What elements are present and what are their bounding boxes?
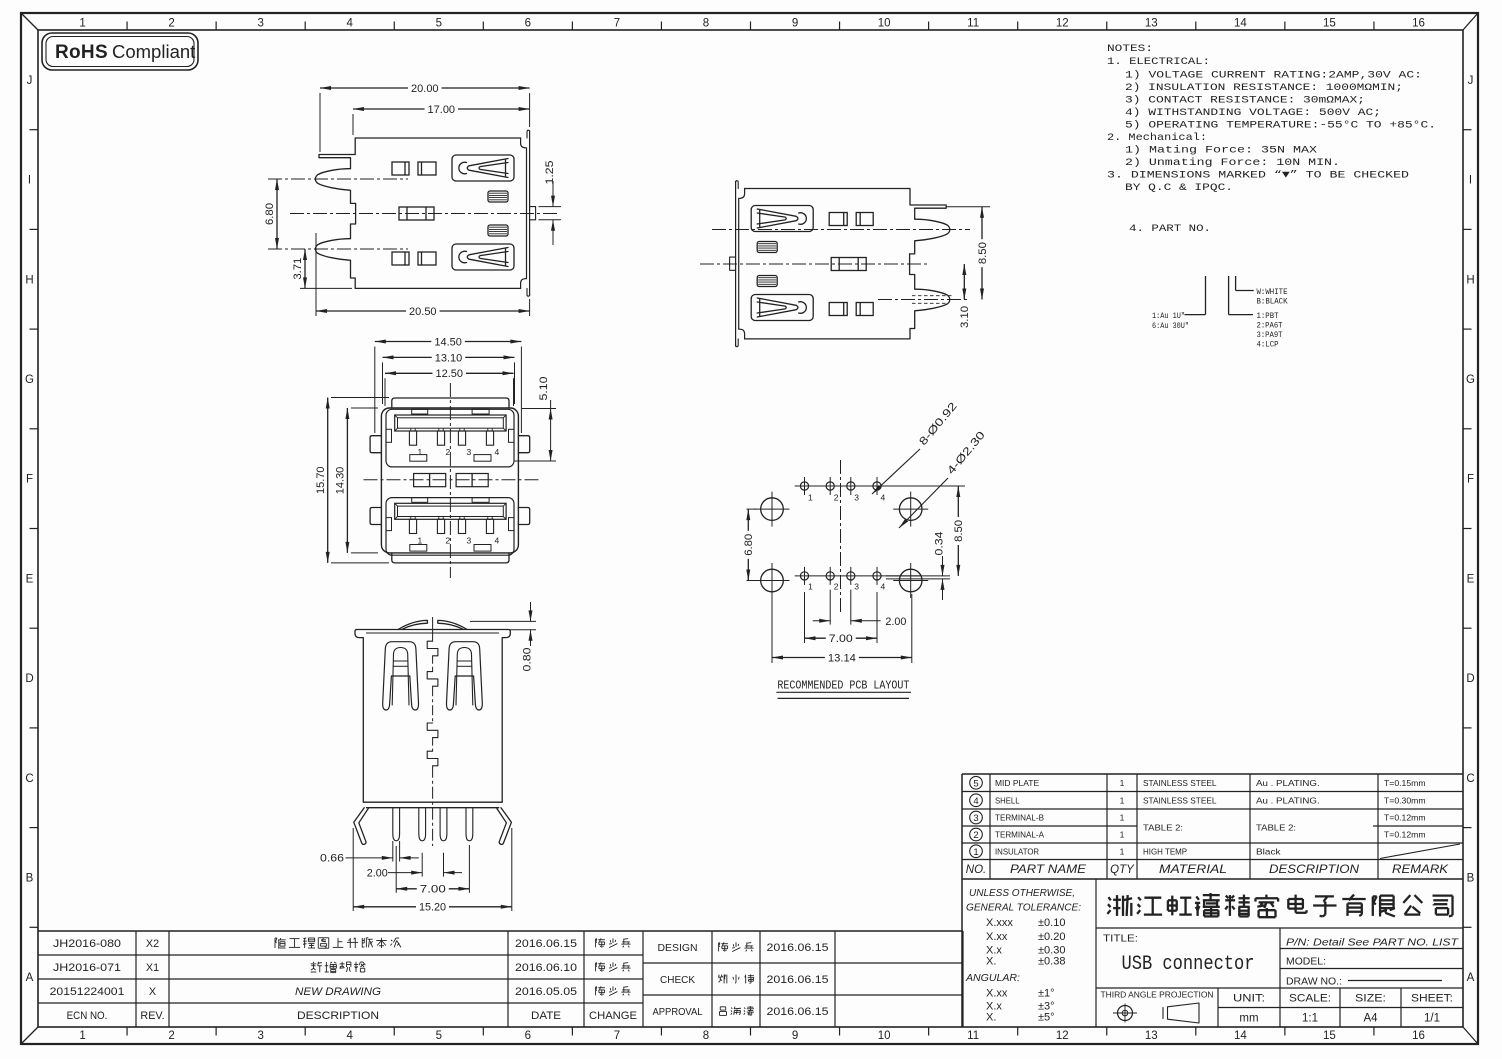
- view 2 center rects: [414, 474, 446, 487]
- pcb dim 13.14: [771, 594, 773, 663]
- svg-text:F: F: [26, 474, 33, 486]
- svg-text:2: 2: [446, 447, 451, 457]
- svg-text:A: A: [26, 972, 34, 984]
- view 2 dim 13.10: [383, 356, 432, 358]
- svg-text:1: 1: [1120, 830, 1125, 840]
- svg-text:13: 13: [1145, 18, 1158, 30]
- svg-text:15: 15: [1323, 1030, 1336, 1042]
- pcb layout large holes: [761, 498, 784, 521]
- svg-text:REMARK: REMARK: [1392, 864, 1450, 876]
- view 2 bottom plate: [392, 553, 509, 563]
- svg-text:C: C: [1466, 773, 1474, 785]
- svg-text:16: 16: [1412, 18, 1425, 30]
- RoHS Compliant badge: [42, 33, 198, 70]
- view 3 top spring arcs: [398, 620, 427, 629]
- svg-text:13.10: 13.10: [435, 352, 463, 364]
- svg-text:3: 3: [467, 447, 472, 457]
- pcb leader 8-0.92: [872, 449, 920, 494]
- svg-text:±0.10: ±0.10: [1038, 917, 1065, 929]
- view 2 dim 15.70: [327, 398, 329, 563]
- svg-text:16: 16: [1412, 1030, 1425, 1042]
- svg-text:STAINLESS STEEL: STAINLESS STEEL: [1143, 778, 1217, 788]
- view 2 port assembly (upper): [386, 409, 514, 467]
- svg-text:8.50: 8.50: [953, 520, 965, 542]
- svg-text:2.00: 2.00: [885, 616, 906, 628]
- svg-text:NEW DRAWING: NEW DRAWING: [295, 986, 381, 998]
- svg-text:2. Mechanical:: 2. Mechanical:: [1107, 132, 1207, 144]
- svg-text:6: 6: [525, 18, 531, 30]
- svg-text:10: 10: [878, 1030, 891, 1042]
- svg-text:15: 15: [1323, 18, 1336, 30]
- svg-text:5: 5: [436, 18, 442, 30]
- svg-text:3. DIMENSIONS MARKED “▼” TO BE: 3. DIMENSIONS MARKED “▼” TO BE CHECKED: [1107, 170, 1409, 182]
- svg-text:THIRD ANGLE PROJECTION: THIRD ANGLE PROJECTION: [1101, 991, 1214, 1000]
- svg-text:20.00: 20.00: [411, 83, 439, 95]
- svg-text:0.80: 0.80: [522, 648, 534, 672]
- view 3 bottom band: [363, 801, 502, 803]
- pcb layout small holes: [795, 485, 892, 487]
- svg-text:6: 6: [525, 1030, 531, 1042]
- view 1 dim 1.25: [539, 206, 562, 208]
- svg-text:1: 1: [1120, 846, 1125, 856]
- svg-text:3:PA9T: 3:PA9T: [1257, 331, 1283, 340]
- view 2 side tabs: [370, 436, 381, 453]
- svg-text:SHELL: SHELL: [995, 795, 1020, 805]
- view 1 dim 20.50: [316, 310, 406, 312]
- svg-text:8: 8: [703, 18, 709, 30]
- svg-text:14: 14: [1234, 1030, 1247, 1042]
- svg-text:D: D: [25, 673, 33, 685]
- svg-text:1: 1: [973, 847, 978, 858]
- view 1 dim 17.00: [353, 108, 425, 110]
- svg-text:7: 7: [614, 18, 620, 30]
- svg-text:2016.06.15: 2016.06.15: [515, 938, 577, 950]
- view 1 dim 20.00: [320, 87, 408, 89]
- svg-text:JH2016-080: JH2016-080: [53, 938, 121, 950]
- svg-text:1) Mating Force: 35N MAX: 1) Mating Force: 35N MAX: [1125, 145, 1318, 157]
- svg-text:DATE: DATE: [531, 1010, 561, 1022]
- svg-text:SIZE:: SIZE:: [1355, 993, 1386, 1005]
- svg-text:B:BLACK: B:BLACK: [1257, 298, 1288, 307]
- svg-text:HIGH TEMP: HIGH TEMP: [1143, 846, 1187, 856]
- top view connector geometry (used for view1 and mirrored view4): [315, 130, 535, 296]
- parts table QTY col rows3/2 line: [1107, 825, 1137, 827]
- svg-text:5: 5: [436, 1030, 442, 1042]
- frame corner diagonals: [21, 13, 38, 30]
- svg-text:Black: Black: [1256, 846, 1281, 856]
- svg-text:NO.: NO.: [966, 864, 986, 876]
- svg-text:USB connector: USB connector: [1122, 953, 1255, 976]
- svg-text:T=0.12mm: T=0.12mm: [1384, 830, 1426, 840]
- view 4 centerlines: [712, 229, 970, 231]
- view 3 A-contact left: [383, 642, 419, 710]
- svg-text:X.: X.: [986, 1012, 996, 1024]
- svg-text:TABLE 2:: TABLE 2:: [1143, 823, 1183, 833]
- revision change names CJK: [596, 938, 597, 940]
- view 1 dim 3.71: [304, 249, 306, 288]
- svg-text:2: 2: [168, 1030, 174, 1042]
- view 1 dim 6.80: [276, 179, 278, 249]
- svg-text:20.50: 20.50: [409, 306, 437, 318]
- svg-text:X.: X.: [986, 956, 996, 968]
- svg-text:8: 8: [703, 1030, 709, 1042]
- svg-text:E: E: [1467, 573, 1475, 585]
- view 2 dim 14.50: [375, 341, 432, 343]
- svg-text:1: 1: [79, 1030, 85, 1042]
- svg-text:5: 5: [973, 778, 978, 789]
- svg-text:B: B: [1467, 872, 1475, 884]
- svg-text:REV.: REV.: [140, 1010, 164, 1022]
- svg-text:1/1: 1/1: [1424, 1013, 1440, 1025]
- svg-text:2016.06.10: 2016.06.10: [515, 962, 577, 974]
- view 2 dim 12.50: [385, 372, 433, 374]
- svg-text:JH2016-071: JH2016-071: [53, 962, 121, 974]
- svg-text:UNIT:: UNIT:: [1233, 993, 1265, 1005]
- view 3 dim 0.80: [470, 620, 536, 622]
- svg-text:J: J: [1468, 75, 1474, 87]
- svg-text:SHEET:: SHEET:: [1411, 993, 1453, 1005]
- svg-text:6:Au 30U": 6:Au 30U": [1152, 322, 1189, 331]
- svg-text:UNLESS OTHERWISE,: UNLESS OTHERWISE,: [969, 887, 1075, 899]
- svg-text:2.00: 2.00: [367, 867, 388, 879]
- svg-text:INSULATOR: INSULATOR: [995, 846, 1039, 856]
- svg-text:TABLE 2:: TABLE 2:: [1256, 823, 1296, 833]
- svg-text:12: 12: [1056, 18, 1069, 30]
- view 2 centerlines: [364, 479, 540, 481]
- svg-text:±1°: ±1°: [1038, 988, 1055, 1000]
- svg-text:F: F: [1467, 474, 1474, 486]
- view 3 center seam zigzag: [427, 641, 438, 656]
- svg-text:2016.06.15: 2016.06.15: [767, 942, 829, 954]
- svg-text:13.14: 13.14: [828, 652, 856, 664]
- view 4 hidden dashes bottom finger: [912, 295, 952, 297]
- view 2 port assembly (lower): [386, 498, 514, 556]
- svg-text:14.30: 14.30: [335, 467, 347, 495]
- svg-text:1:1: 1:1: [1302, 1013, 1318, 1025]
- svg-text:DESCRIPTION: DESCRIPTION: [1269, 864, 1360, 876]
- svg-text:14: 14: [1234, 18, 1247, 30]
- view 3 dim 7.00: [395, 846, 397, 893]
- svg-text:TITLE:: TITLE:: [1103, 933, 1138, 945]
- pcb dim 8.50: [892, 485, 966, 487]
- svg-text:2: 2: [446, 535, 451, 545]
- svg-text:3: 3: [854, 582, 859, 592]
- pcb dim 2.00: [829, 590, 831, 625]
- svg-text:11: 11: [967, 1030, 979, 1042]
- company name (CJK drawn strokes): [1108, 897, 1110, 900]
- svg-text:4: 4: [347, 18, 354, 30]
- design/check/approval block: [643, 930, 963, 932]
- svg-text:1: 1: [1120, 795, 1125, 805]
- svg-text:CHANGE: CHANGE: [589, 1010, 637, 1022]
- parts table remark diagonal: [1380, 844, 1460, 859]
- svg-text:9: 9: [792, 18, 798, 30]
- bottom right block: [1096, 987, 1463, 989]
- view 3 dim 15.20: [352, 828, 354, 911]
- svg-text:12.50: 12.50: [436, 368, 464, 380]
- svg-text:3: 3: [467, 535, 472, 545]
- svg-text:3: 3: [257, 18, 263, 30]
- svg-text:H: H: [25, 274, 33, 286]
- svg-text:D: D: [1466, 673, 1474, 685]
- svg-text:G: G: [1466, 374, 1475, 386]
- svg-text:1: 1: [1120, 813, 1125, 823]
- svg-text:20151224001: 20151224001: [50, 986, 125, 998]
- svg-text:7.00: 7.00: [420, 884, 446, 896]
- svg-text:1: 1: [418, 447, 423, 457]
- svg-text:RECOMMENDED PCB LAYOUT: RECOMMENDED PCB LAYOUT: [777, 679, 909, 693]
- svg-text:J: J: [27, 75, 33, 87]
- svg-text:DESIGN: DESIGN: [658, 943, 698, 954]
- svg-text:12: 12: [1056, 1030, 1069, 1042]
- svg-text:1: 1: [808, 582, 813, 592]
- svg-text:DRAW NO.:: DRAW NO.:: [1286, 976, 1342, 988]
- svg-text:0.34: 0.34: [934, 532, 946, 556]
- svg-text:1: 1: [808, 493, 813, 503]
- view 2 dim 14.30: [346, 408, 348, 553]
- svg-text:1:PBT: 1:PBT: [1257, 312, 1279, 321]
- svg-text:2: 2: [168, 18, 174, 30]
- svg-text:MID PLATE: MID PLATE: [995, 778, 1039, 788]
- svg-text:PART NAME: PART NAME: [1010, 864, 1086, 876]
- svg-text:2: 2: [973, 830, 978, 841]
- svg-text:T=0.12mm: T=0.12mm: [1384, 813, 1426, 823]
- svg-text:2) INSULATION RESISTANCE: 1000: 2) INSULATION RESISTANCE: 1000MΩMIN;: [1125, 82, 1403, 94]
- svg-text:6.80: 6.80: [743, 534, 755, 556]
- svg-text:13: 13: [1145, 1030, 1158, 1042]
- svg-text:1) VOLTAGE CURRENT RATING:2AMP: 1) VOLTAGE CURRENT RATING:2AMP,30V AC:: [1125, 70, 1422, 82]
- svg-text:4: 4: [495, 447, 500, 457]
- svg-text:MATERIAL: MATERIAL: [1159, 864, 1227, 876]
- pcb dim 0.34: [886, 575, 950, 577]
- svg-text:5) OPERATING TEMPERATURE:-55°C: 5) OPERATING TEMPERATURE:-55°C TO +85°C.: [1125, 120, 1436, 132]
- parts table grid: [962, 773, 1463, 775]
- svg-text:3.71: 3.71: [292, 258, 304, 280]
- svg-text:1: 1: [79, 18, 85, 30]
- svg-text:4: 4: [495, 535, 500, 545]
- svg-text:I: I: [1469, 175, 1472, 187]
- svg-text:W:WHITE: W:WHITE: [1257, 288, 1288, 297]
- svg-text:E: E: [26, 573, 34, 585]
- svg-text:4: 4: [881, 582, 886, 592]
- svg-text:10: 10: [878, 18, 891, 30]
- third angle symbol circle: [1118, 1006, 1133, 1021]
- view 4: mirrored top view: [730, 181, 950, 347]
- svg-text:Au . PLATING.: Au . PLATING.: [1256, 795, 1320, 805]
- svg-text:TERMINAL-B: TERMINAL-B: [995, 813, 1044, 823]
- view 3 legs: [354, 808, 369, 845]
- view 2 top plate: [392, 398, 509, 408]
- svg-text:4. PART NO.: 4. PART NO.: [1129, 223, 1211, 235]
- svg-text:STAINLESS STEEL: STAINLESS STEEL: [1143, 795, 1217, 805]
- svg-text:3) CONTACT RESISTANCE: 30mΩMAX: 3) CONTACT RESISTANCE: 30mΩMAX;: [1125, 95, 1365, 107]
- svg-text:2016.06.15: 2016.06.15: [767, 974, 829, 986]
- pcb leader 4-2.30: [899, 478, 948, 528]
- svg-text:7: 7: [614, 1030, 620, 1042]
- view 3 dim 0.66: [392, 841, 394, 862]
- pcb layout center dash line: [840, 460, 842, 614]
- view 3 pins: [393, 808, 400, 841]
- svg-text:11: 11: [967, 18, 979, 30]
- svg-text:6.80: 6.80: [264, 203, 276, 225]
- svg-text:ANGULAR:: ANGULAR:: [965, 972, 1020, 984]
- svg-text:8.50: 8.50: [977, 242, 989, 264]
- svg-text:B: B: [26, 872, 34, 884]
- svg-text:X: X: [149, 986, 156, 998]
- svg-text:X.xxx: X.xxx: [986, 917, 1013, 929]
- company name box: [1096, 927, 1463, 929]
- view 3: rear view top edge and hooks: [366, 629, 499, 631]
- svg-text:DESCRIPTION: DESCRIPTION: [297, 1010, 379, 1022]
- pcb dim 6.80: [747, 508, 757, 510]
- svg-text:BY Q.C & IPQC.: BY Q.C & IPQC.: [1125, 182, 1233, 194]
- svg-text:H: H: [1466, 274, 1474, 286]
- svg-text:3: 3: [973, 813, 978, 824]
- svg-text:2: 2: [834, 493, 839, 503]
- svg-text:X2: X2: [146, 938, 159, 950]
- svg-text:ECN NO.: ECN NO.: [67, 1010, 108, 1022]
- svg-text:1. ELECTRICAL:: 1. ELECTRICAL:: [1107, 56, 1210, 68]
- svg-text:T=0.15mm: T=0.15mm: [1384, 778, 1426, 788]
- svg-text:4: 4: [973, 796, 978, 807]
- view 4 dim 3.10: [963, 264, 965, 300]
- parts table circled numbers: [970, 776, 983, 789]
- svg-text:P/N: Detail See PART NO. LIST: P/N: Detail See PART NO. LIST: [1286, 937, 1460, 949]
- svg-text:CHECK: CHECK: [660, 975, 695, 986]
- svg-text:Compliant: Compliant: [112, 41, 195, 62]
- svg-text:QTY: QTY: [1110, 864, 1135, 876]
- svg-text:2:PA6T: 2:PA6T: [1257, 322, 1283, 331]
- svg-text:C: C: [25, 773, 33, 785]
- pcb dim 7.00: [804, 592, 806, 643]
- third angle symbol cone: [1163, 1003, 1199, 1023]
- svg-text:Au . PLATING.: Au . PLATING.: [1256, 778, 1320, 788]
- svg-text:TERMINAL-A: TERMINAL-A: [995, 830, 1044, 840]
- svg-text:±5°: ±5°: [1038, 1012, 1055, 1024]
- svg-text:9: 9: [792, 1030, 798, 1042]
- view 1: top view centerlines: [268, 178, 408, 180]
- svg-text:±0.20: ±0.20: [1038, 931, 1065, 943]
- view 2 dim 5.10: [522, 408, 556, 410]
- svg-text:3: 3: [854, 493, 859, 503]
- svg-text:T=0.30mm: T=0.30mm: [1384, 795, 1426, 805]
- svg-text:7.00: 7.00: [829, 633, 853, 645]
- tolerance box: [961, 879, 963, 1027]
- svg-text:1: 1: [418, 535, 423, 545]
- svg-text:A: A: [1467, 972, 1475, 984]
- part number legend: [1205, 276, 1207, 315]
- svg-text:±0.38: ±0.38: [1038, 956, 1065, 968]
- svg-text:mm: mm: [1239, 1013, 1258, 1025]
- svg-text:MODEL:: MODEL:: [1286, 956, 1326, 968]
- view 4 dim 8.50: [946, 206, 990, 208]
- svg-text:5.10: 5.10: [538, 377, 550, 401]
- svg-text:3.10: 3.10: [959, 306, 971, 328]
- svg-text:X.xx: X.xx: [986, 931, 1008, 943]
- svg-text:3: 3: [257, 1030, 263, 1042]
- svg-text:G: G: [25, 374, 34, 386]
- svg-text:4: 4: [881, 493, 886, 503]
- svg-text:15.70: 15.70: [315, 466, 327, 494]
- svg-text:APPROVAL: APPROVAL: [653, 1007, 704, 1018]
- svg-text:A4: A4: [1363, 1013, 1378, 1025]
- svg-text:4:LCP: 4:LCP: [1257, 341, 1279, 350]
- svg-text:1.25: 1.25: [544, 161, 556, 185]
- svg-text:RoHS: RoHS: [55, 42, 108, 63]
- svg-text:2016.05.05: 2016.05.05: [515, 986, 577, 998]
- svg-text:1: 1: [1120, 778, 1125, 788]
- svg-text:2016.06.15: 2016.06.15: [767, 1006, 829, 1018]
- svg-text:2) Unmating Force: 10N MIN.: 2) Unmating Force: 10N MIN.: [1125, 157, 1340, 169]
- view 3 A-contact right: [446, 642, 482, 710]
- svg-text:I: I: [28, 175, 31, 187]
- svg-text:0.66: 0.66: [320, 853, 344, 865]
- svg-text:14.50: 14.50: [434, 336, 462, 348]
- svg-text:4: 4: [347, 1030, 354, 1042]
- svg-text:17.00: 17.00: [428, 104, 456, 116]
- view 2: front view outer shell: [381, 408, 518, 553]
- svg-text:X.xx: X.xx: [986, 988, 1008, 1000]
- svg-text:15.20: 15.20: [419, 902, 446, 914]
- svg-text:1:Au 1U": 1:Au 1U": [1152, 312, 1185, 321]
- svg-text:GENERAL TOLERANCE:: GENERAL TOLERANCE:: [966, 902, 1081, 914]
- revision table grid: [38, 930, 643, 932]
- svg-text:X1: X1: [146, 962, 159, 974]
- svg-text:NOTES:: NOTES:: [1107, 43, 1153, 55]
- title box: [1279, 928, 1281, 988]
- view 3 dim 2.00: [421, 853, 423, 877]
- svg-text:4) WITHSTANDING VOLTAGE: 500V: 4) WITHSTANDING VOLTAGE: 500V AC;: [1125, 107, 1381, 119]
- svg-text:SCALE:: SCALE:: [1289, 993, 1331, 1005]
- svg-text:2: 2: [834, 582, 839, 592]
